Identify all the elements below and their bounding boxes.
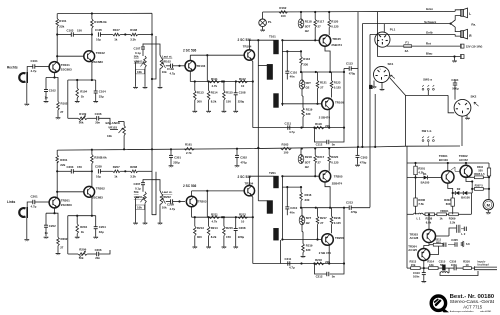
svg-text:L 2: L 2: [461, 232, 465, 236]
svg-text:4.7µ: 4.7µ: [170, 207, 176, 211]
ground C202: [44, 237, 49, 239]
resistor R212: [238, 213, 248, 224]
transistor TR105: [319, 35, 330, 46]
svg-text:33µ: 33µ: [99, 230, 104, 234]
svg-text:4.7k: 4.7k: [212, 220, 218, 224]
wire feedback drop2 x67.8: [67, 216, 69, 254]
svg-text:D2: D2: [457, 187, 461, 191]
wire x207 drop: [206, 55, 208, 81]
transistor TR204: [244, 186, 254, 196]
wire R205 leads: [91, 149, 93, 172]
wire Blau ground stub: [454, 57, 456, 61]
wire TR302 base-emitter link: [451, 167, 460, 171]
wire R222 top: [300, 149, 302, 156]
svg-text:0.125: 0.125: [331, 160, 339, 164]
ground Blau: [452, 61, 457, 63]
svg-text:R204: R204: [80, 225, 87, 229]
node VR102 10k: [162, 70, 167, 74]
svg-text:150: 150: [77, 165, 82, 169]
connector SK1: [374, 67, 390, 83]
wire x207 drop2: [206, 191, 208, 217]
svg-text:20n: 20n: [95, 121, 100, 125]
svg-text:löschkopf: löschkopf: [477, 264, 488, 267]
wire VR202 top: [152, 180, 162, 194]
svg-text:10k: 10k: [107, 134, 112, 138]
wire emitter row2: [68, 215, 96, 217]
wire R217 leads: [314, 147, 316, 176]
svg-text:R201: R201: [60, 158, 68, 162]
wire R113 leads: [194, 80, 196, 110]
svg-text:R109: R109: [79, 112, 86, 116]
svg-text:4.7µ: 4.7µ: [31, 69, 37, 73]
wire VR103 to bus: [118, 122, 125, 151]
node 2SC536 label TR204: [238, 175, 254, 185]
wire TR103 collector: [189, 55, 191, 60]
thermistor R122: [299, 80, 311, 90]
ground VR202: [158, 223, 163, 225]
svg-text:5n: 5n: [332, 143, 336, 147]
svg-text:SW1-a: SW1-a: [423, 78, 432, 82]
wire Schwarz to speaker R: [451, 24, 461, 32]
svg-text:1k: 1k: [114, 38, 118, 42]
svg-text:8.2k: 8.2k: [211, 235, 217, 239]
wire TR103-TR104 link: [190, 54, 244, 56]
wire feedback row2 y263.5: [253, 262, 345, 264]
svg-text:5DT: 5DT: [306, 81, 312, 85]
transformer T101 secondary bar: [267, 64, 273, 79]
capacitor C201: [31, 195, 39, 209]
svg-text:12V (10-16V): 12V (10-16V): [466, 45, 483, 49]
wire jack ground stub: [26, 83, 28, 104]
wire R216 leads: [300, 187, 302, 208]
capacitor C313: [413, 271, 426, 279]
node Links input label: [7, 200, 16, 204]
wire C205 to R207: [100, 170, 112, 172]
capacitor C111 electrolytic: [285, 121, 296, 134]
svg-text:470µ: 470µ: [349, 71, 356, 75]
svg-text:R207: R207: [113, 165, 120, 169]
ground motor: [486, 213, 491, 215]
node value 0.1u: [135, 51, 141, 55]
svg-text:C204: C204: [99, 225, 106, 229]
svg-text:Ω2: Ω2: [306, 86, 310, 90]
resistor R107: [113, 28, 120, 41]
svg-text:R123: R123: [334, 80, 341, 84]
svg-text:R116: R116: [303, 57, 310, 61]
node VR201 labels: [134, 190, 143, 199]
lamp PL: [259, 19, 272, 27]
node TR106 labels: [319, 100, 344, 119]
wire motor top bus: [407, 162, 489, 164]
node 2SC536 label TR104: [238, 38, 252, 48]
node TR303 labels: [410, 232, 419, 240]
svg-text:TR104: TR104: [243, 44, 252, 48]
svg-text:R104: R104: [80, 90, 87, 94]
svg-text:150: 150: [77, 28, 82, 32]
svg-text:550: 550: [478, 168, 483, 172]
resistor R311: [433, 238, 443, 247]
wire R108 to rail: [138, 33, 153, 35]
wire jack2 to C201: [27, 202, 32, 208]
node Ra label: [471, 22, 476, 26]
capacitor C105 electrolytic: [95, 28, 102, 42]
wire SK1-to-bus vertical: [374, 94, 376, 147]
svg-text:330: 330: [303, 62, 308, 66]
wire lamp leads: [262, 12, 264, 30]
capacitor C107: [134, 47, 146, 51]
wire TR104 emitter drop: [251, 60, 253, 128]
svg-text:50k: 50k: [79, 121, 84, 125]
resistor VR301: [437, 213, 447, 221]
ground VR201 a: [133, 223, 138, 225]
wire x471 up: [470, 193, 472, 214]
capacitor C206: [95, 248, 102, 260]
node 3A label: [405, 49, 410, 53]
node F1 label: [405, 40, 409, 44]
wire C313 leads: [423, 268, 425, 281]
node Blau label: [426, 52, 433, 56]
resistor R114: [207, 91, 218, 104]
resistor R121: [316, 80, 327, 89]
svg-text:F1: F1: [405, 40, 409, 44]
svg-text:SK1: SK1: [388, 62, 394, 66]
transistor TR303: [423, 230, 436, 243]
capacitor C301 bus: [169, 155, 181, 164]
wire C104 leads: [95, 80, 97, 101]
wire long vertical supply x258.5: [257, 39, 259, 201]
transistor TR302: [460, 165, 472, 177]
svg-text:220µ: 220µ: [173, 160, 180, 164]
resistor R116: [300, 57, 311, 67]
transistor TR102: [84, 51, 105, 64]
wire TR202 base: [56, 191, 84, 193]
svg-text:6.8: 6.8: [466, 242, 470, 246]
wire TR204 emitter drop: [251, 196, 253, 264]
svg-text:R214: R214: [211, 226, 218, 230]
svg-text:Ra.: Ra.: [471, 22, 476, 26]
node BALANCE label: [106, 121, 121, 130]
resistor R214: [207, 226, 218, 239]
svg-text:100: 100: [284, 151, 289, 155]
svg-text:Ω2: Ω2: [305, 165, 309, 169]
wire R116 top node: [282, 50, 302, 52]
node rail x152: [151, 13, 153, 149]
node TR301 labels: [439, 154, 448, 162]
wire TR201 collector up: [56, 162, 58, 198]
wire C108 leads: [235, 82, 237, 111]
wire output to C113: [344, 69, 349, 73]
wire Rot line: [387, 45, 461, 47]
svg-text:R114: R114: [211, 91, 218, 95]
svg-text:R217: R217: [320, 216, 327, 220]
svg-text:Gelb: Gelb: [426, 31, 433, 35]
wire R303 leads: [452, 192, 454, 214]
svg-text:PL: PL: [268, 20, 272, 24]
wire supply to T201: [258, 200, 268, 202]
transformer T201 label: [269, 171, 276, 175]
resistor R123: [330, 80, 341, 89]
wire Gruen to speaker L: [455, 10, 461, 12]
capacitor C306: [461, 227, 466, 231]
capacitor C316: [454, 266, 456, 270]
wire mid supply bus: [57, 146, 460, 150]
node 2SC536 label top: [183, 48, 197, 52]
svg-text:10k: 10k: [137, 70, 142, 74]
capacitor C205 electrolytic: [95, 165, 102, 179]
wire C109 to TR103: [173, 65, 185, 67]
svg-text:500µ: 500µ: [452, 87, 459, 91]
wire C201 to TR201 base: [35, 201, 50, 203]
svg-text:C206: C206: [95, 248, 102, 252]
wire emitter row2b: [192, 216, 254, 218]
wire R118 top: [300, 11, 302, 20]
svg-text:0.125: 0.125: [334, 221, 341, 225]
svg-text:100: 100: [281, 14, 286, 18]
wire C110 leads: [286, 51, 288, 79]
wire x344 up2: [343, 208, 345, 264]
resistor R108: [130, 28, 138, 41]
transistor TR101: [49, 62, 72, 73]
ground VR101 a: [133, 87, 138, 89]
transistor TR104: [244, 50, 254, 60]
svg-text:R108: R108: [130, 28, 137, 32]
svg-text:R212: R212: [239, 213, 246, 217]
transistor TR203: [186, 196, 207, 207]
svg-text:7.5k: 7.5k: [418, 202, 424, 206]
svg-text:C202: C202: [49, 224, 56, 228]
capacitor C304 electrolytic: [452, 83, 459, 91]
wire C113 to vertical: [351, 68, 358, 70]
wire SK1 ground stubs: [374, 81, 382, 89]
wire C203 to node: [73, 170, 93, 172]
ground VR201 b: [143, 223, 148, 225]
node VR101 10k: [136, 69, 145, 74]
svg-text:R163: R163: [282, 142, 289, 146]
wire C210 leads: [286, 187, 288, 215]
node Lautst label 2: [162, 190, 172, 199]
svg-text:27: 27: [318, 25, 322, 29]
wire R209 to C206: [87, 253, 96, 255]
resistor R223: [330, 216, 341, 225]
wire C105 to R107: [100, 34, 112, 36]
svg-text:R218: R218: [315, 258, 322, 262]
wire motor left rail: [406, 146, 408, 268]
svg-text:C205: C205: [95, 165, 102, 169]
wire C208 leads: [235, 217, 237, 246]
svg-text:0.125: 0.125: [331, 25, 339, 29]
svg-text:C213: C213: [346, 201, 353, 205]
transformer T101 label: [269, 34, 276, 38]
svg-text:R113: R113: [197, 91, 204, 95]
wire row214 left: [407, 213, 414, 215]
wire TR106 emitter: [328, 109, 330, 127]
svg-text:150: 150: [226, 235, 231, 239]
svg-text:2.7k: 2.7k: [186, 151, 192, 155]
wire TR106 base row: [281, 103, 321, 105]
svg-text:10µ: 10µ: [96, 38, 101, 42]
svg-text:150: 150: [226, 99, 231, 103]
node SK2 label: [471, 95, 477, 99]
capacitor C315: [442, 265, 445, 270]
svg-text:L: L: [469, 12, 471, 16]
ground SK1 a: [372, 87, 377, 89]
ground C303: [355, 165, 360, 167]
node Schwarz label: [424, 20, 437, 24]
ground VR102: [158, 87, 163, 89]
svg-text:15k: 15k: [411, 263, 416, 267]
wire T201 right vertical: [281, 175, 283, 240]
resistor R113: [194, 91, 205, 104]
capacitor C307: [443, 243, 446, 247]
wire SK1 arrow: [391, 75, 395, 79]
svg-text:C112: C112: [316, 143, 323, 147]
resistor R115: [223, 91, 234, 104]
wire C304 wiring: [448, 80, 455, 113]
svg-text:300: 300: [197, 235, 202, 239]
resistor R204: [76, 224, 88, 235]
wire top supply bus (left segment): [57, 12, 152, 14]
svg-text:R218: R218: [334, 216, 341, 220]
svg-text:R101: R101: [59, 19, 67, 23]
svg-text:TR206: TR206: [335, 236, 344, 240]
wire TR105 base row: [282, 39, 319, 41]
transistor TR202: [84, 186, 105, 199]
svg-text:T101: T101: [269, 34, 276, 38]
resistor R120: [328, 19, 339, 28]
node C305 label: [451, 238, 458, 242]
wire C303 leads: [357, 147, 359, 165]
svg-text:C106: C106: [95, 112, 102, 116]
svg-text:C303: C303: [361, 156, 368, 160]
switch SW1-b: [422, 129, 435, 146]
svg-text:330: 330: [306, 248, 311, 252]
node Lautst label: [162, 54, 172, 63]
resistor R217: [314, 155, 325, 164]
wire T201 tap down: [279, 240, 281, 264]
wire TR301 collector: [447, 162, 449, 171]
resistor R312: [461, 241, 470, 247]
wire R215 leads: [223, 216, 225, 246]
transistor TR206: [322, 234, 334, 246]
speaker R: [461, 29, 468, 39]
wire output row y72: [300, 71, 345, 73]
wire C204 leads: [95, 216, 97, 237]
node TR302 labels: [459, 154, 468, 162]
wire SK2 to bus: [461, 116, 463, 146]
svg-text:SW 1-b: SW 1-b: [422, 129, 432, 133]
capacitor C213 electrolytic: [346, 201, 358, 214]
wire Blau line: [377, 55, 460, 57]
node SK1 label: [388, 62, 394, 66]
svg-text:220µ: 220µ: [238, 99, 245, 103]
svg-text:40n: 40n: [290, 75, 295, 79]
resistor R310: [487, 168, 490, 176]
ground R202: [56, 254, 61, 256]
svg-text:TR203: TR203: [198, 200, 207, 204]
svg-text:C102: C102: [49, 89, 56, 93]
svg-text:4.7µ: 4.7µ: [289, 130, 295, 134]
wire TR203 collector: [191, 191, 193, 196]
potentiometer VR202: [160, 194, 165, 204]
inductor L1: [414, 213, 424, 220]
wire output row2 y207.7: [300, 207, 345, 209]
svg-text:10k: 10k: [137, 206, 142, 210]
wire R123 leads: [331, 72, 333, 98]
wire TR204 collector: [249, 176, 273, 185]
svg-text:C111: C111: [285, 121, 292, 125]
svg-text:R117: R117: [317, 19, 324, 23]
svg-text:C108: C108: [239, 91, 246, 95]
svg-text:100n: 100n: [413, 274, 420, 278]
wire output vertical A: [357, 12, 359, 147]
svg-text:3.3k: 3.3k: [130, 174, 136, 178]
wire R122 leads: [301, 72, 303, 96]
resistor R101: [56, 19, 67, 29]
capacitor C202: [44, 224, 56, 235]
wire TR304 base: [430, 246, 439, 254]
svg-text:R118: R118: [315, 122, 322, 126]
ground R113: [192, 111, 197, 113]
wire R216 top node: [282, 186, 302, 188]
transformer T201 primary upper bar: [274, 176, 279, 188]
wire emitter row: [68, 79, 96, 81]
svg-text:R118: R118: [305, 19, 312, 23]
wire TR202 emitter: [91, 197, 93, 216]
node chassis mark: [369, 85, 372, 89]
wire R102 to ground: [57, 110, 59, 117]
svg-text:8.2k: 8.2k: [211, 99, 217, 103]
wire TR304 emitter: [423, 261, 425, 270]
svg-text:470µ: 470µ: [351, 210, 358, 214]
wire feedback line2 left: [68, 253, 78, 255]
logo Quelle Q ring: [431, 296, 449, 312]
wire TR101 emitter: [46, 72, 58, 102]
svg-text:Ω2: Ω2: [305, 29, 309, 33]
svg-text:TR106: TR106: [335, 100, 344, 104]
wire mid vertical2 x156: [152, 172, 156, 215]
svg-text:2SC683: 2SC683: [92, 60, 103, 64]
wire R213 leads: [194, 216, 196, 246]
resistor R201: [56, 155, 68, 167]
resistor R205: [91, 155, 107, 164]
wire R201 to bus: [56, 150, 58, 155]
capacitor C209 electrolytic: [167, 199, 176, 211]
node ACT text: [463, 304, 482, 309]
svg-text:TR201: TR201: [61, 199, 70, 203]
wire jack2 ground stub: [26, 218, 28, 239]
wire Schwarz to speaker L: [451, 16, 461, 24]
svg-text:330: 330: [306, 112, 311, 116]
svg-text:10µ: 10µ: [96, 174, 101, 178]
svg-text:4.7µ: 4.7µ: [289, 266, 295, 270]
wire R214 leads: [208, 216, 210, 246]
wire R208 to rail2: [138, 170, 152, 172]
capacitor C102: [44, 89, 56, 100]
wire TR203-TR204 link: [192, 190, 244, 192]
node Rot label: [426, 41, 431, 45]
connector SK2: [454, 99, 471, 116]
wire TR302 collector: [465, 162, 467, 165]
wire TR303 collector top: [428, 213, 430, 229]
wire TR206 base row: [281, 238, 321, 240]
svg-text:1k: 1k: [81, 95, 85, 99]
wire motor top lead: [488, 189, 490, 200]
inductor L2: [457, 225, 466, 236]
svg-text:22k: 22k: [60, 163, 65, 167]
svg-text:C103: C103: [67, 28, 74, 32]
wire SK1 to switch: [390, 78, 406, 147]
wire VR102 wiper to C109: [166, 65, 171, 67]
